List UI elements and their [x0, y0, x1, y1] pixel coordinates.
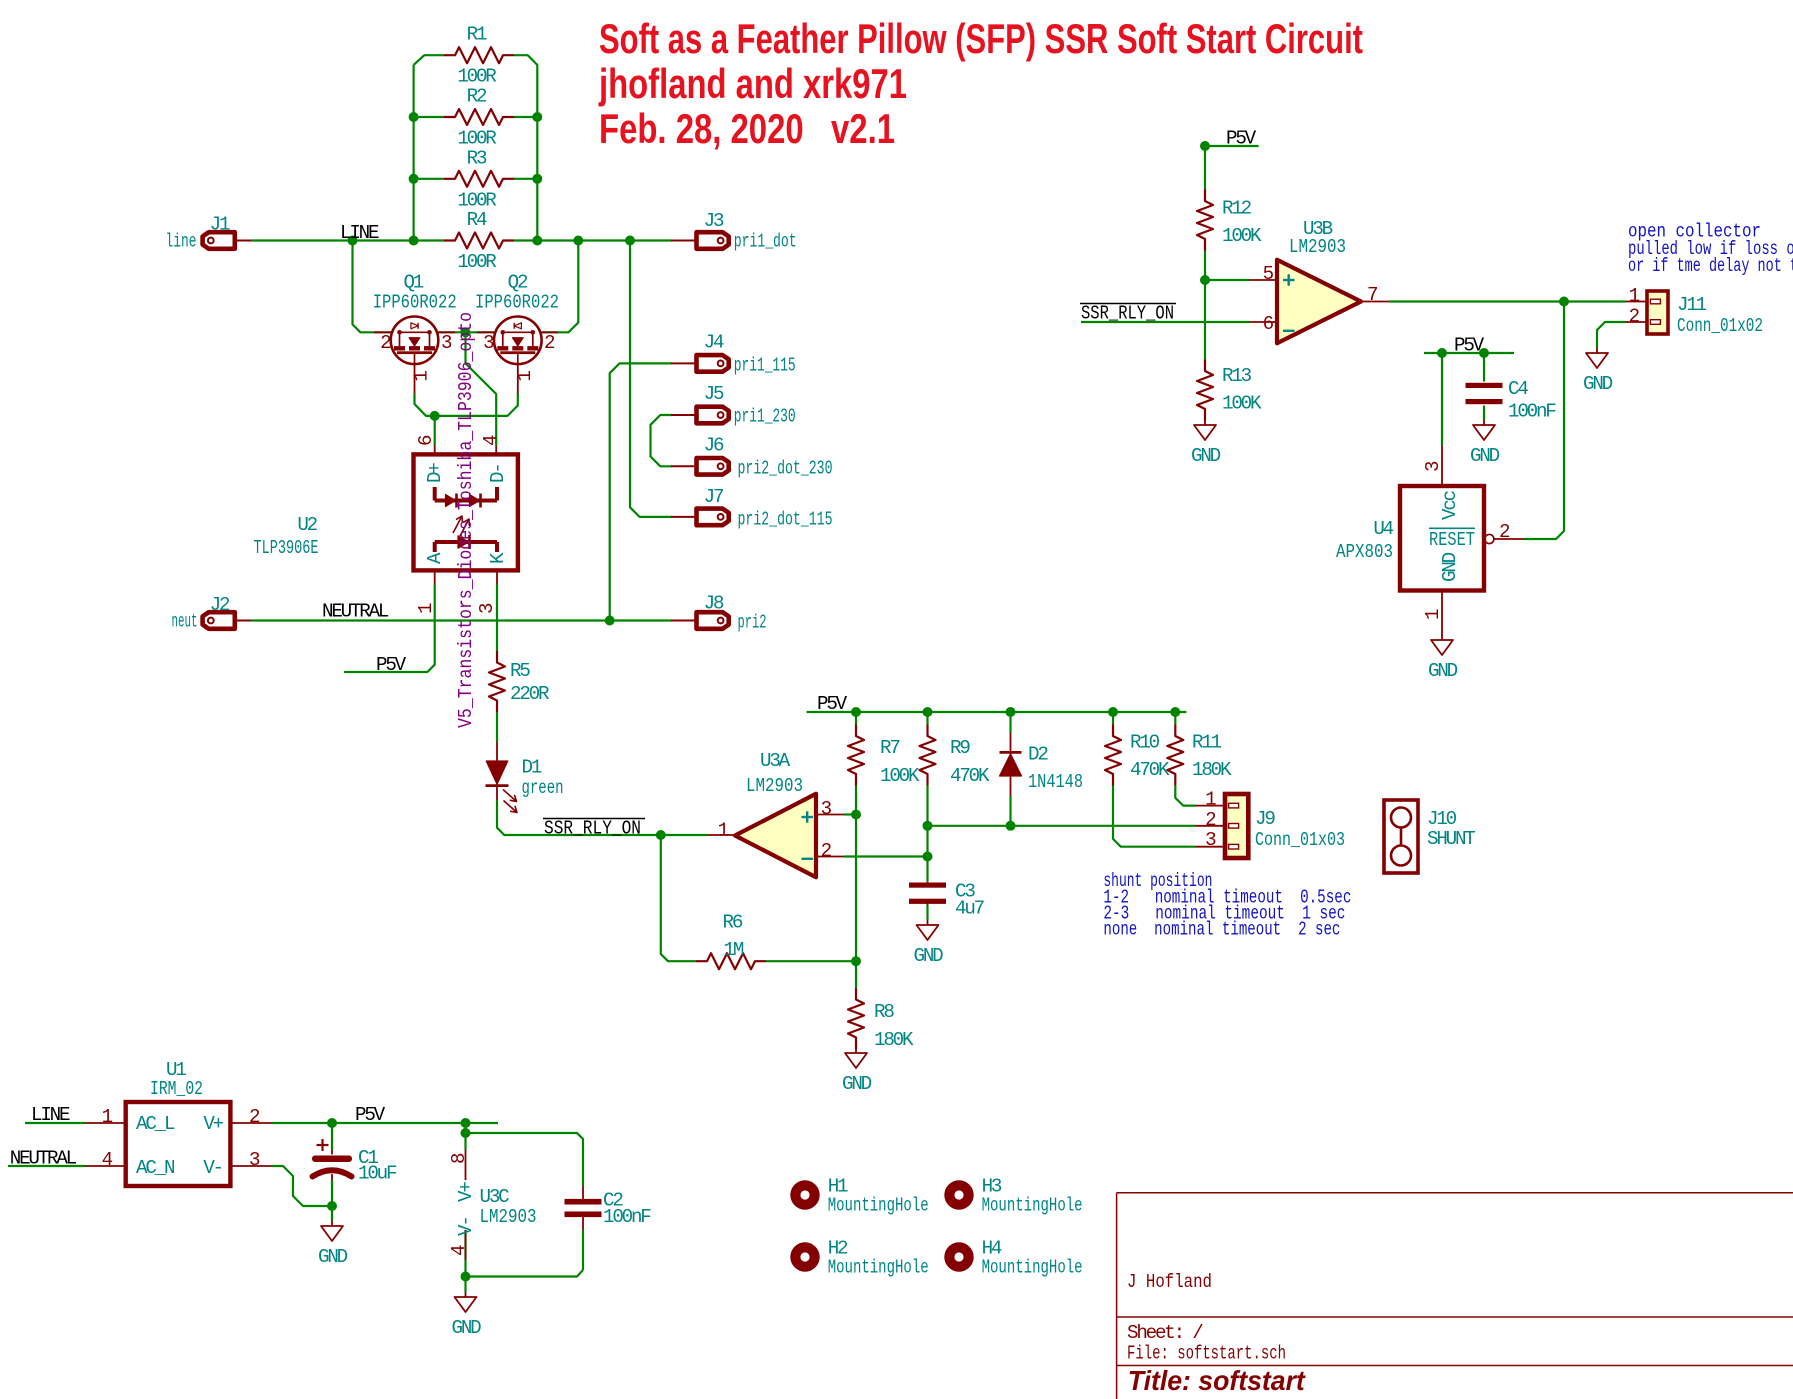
svg-text:100K: 100K	[880, 765, 920, 787]
svg-text:R7: R7	[880, 737, 900, 759]
svg-text:Feb. 28, 2020 v2.1: Feb. 28, 2020 v2.1	[599, 105, 895, 152]
svg-text:100nF: 100nF	[603, 1206, 651, 1228]
svg-text:GND: GND	[914, 945, 944, 967]
svg-text:P5V: P5V	[355, 1104, 386, 1126]
svg-text:or if tme delay not t: or if tme delay not t	[1628, 255, 1793, 277]
svg-text:R3: R3	[467, 147, 487, 169]
svg-text:R11: R11	[1192, 732, 1222, 754]
svg-text:APX803: APX803	[1336, 541, 1393, 563]
svg-text:GND: GND	[1191, 445, 1221, 467]
svg-text:J9: J9	[1255, 808, 1275, 830]
svg-text:D+: D+	[424, 463, 446, 483]
svg-text:J11: J11	[1677, 294, 1707, 316]
svg-text:MountingHole: MountingHole	[828, 1257, 929, 1279]
svg-text:100K: 100K	[1222, 225, 1262, 247]
svg-text:Soft as a Feather Pillow (SFP): Soft as a Feather Pillow (SFP) SSR Soft …	[599, 15, 1363, 62]
svg-text:J7: J7	[704, 486, 724, 508]
svg-text:V5_Transistors_Diodes_Toshiba_: V5_Transistors_Diodes_Toshiba_TLP3906_op…	[455, 312, 477, 728]
svg-text:D2: D2	[1028, 744, 1048, 766]
svg-text:10uF: 10uF	[358, 1163, 397, 1185]
svg-text:pri1_230: pri1_230	[734, 406, 796, 428]
svg-text:J6: J6	[704, 435, 724, 457]
svg-text:180K: 180K	[874, 1029, 914, 1051]
svg-text:LM2903: LM2903	[746, 775, 803, 797]
svg-text:RESET: RESET	[1429, 529, 1475, 551]
svg-text:R9: R9	[950, 737, 970, 759]
svg-text:R8: R8	[874, 1001, 894, 1023]
svg-text:U2: U2	[297, 514, 317, 536]
svg-text:File: softstart.sch: File: softstart.sch	[1127, 1343, 1286, 1365]
svg-text:R10: R10	[1130, 732, 1160, 754]
svg-text:100nF: 100nF	[1508, 401, 1556, 423]
svg-text:Title: softstart: Title: softstart	[1128, 1365, 1307, 1396]
svg-text:GND: GND	[1470, 445, 1500, 467]
svg-text:4u7: 4u7	[955, 898, 985, 920]
svg-text:470K: 470K	[1130, 759, 1170, 781]
svg-text:Vcc: Vcc	[1439, 490, 1461, 520]
svg-text:Q2: Q2	[508, 272, 528, 294]
svg-text:SSR_RLY_ON: SSR_RLY_ON	[1081, 303, 1174, 325]
svg-text:NEUTRAL: NEUTRAL	[322, 601, 389, 623]
svg-text:AC_L: AC_L	[136, 1113, 175, 1135]
svg-text:U3C: U3C	[480, 1186, 510, 1208]
svg-text:220R: 220R	[510, 683, 550, 705]
svg-text:LINE: LINE	[340, 222, 379, 244]
svg-text:P5V: P5V	[1454, 335, 1485, 357]
svg-text:SSR_RLY_ON: SSR_RLY_ON	[544, 818, 641, 840]
svg-text:100K: 100K	[1222, 393, 1262, 415]
svg-text:GND: GND	[842, 1073, 872, 1095]
svg-text:GND: GND	[318, 1246, 348, 1268]
svg-text:green: green	[522, 777, 564, 799]
svg-text:pri2: pri2	[738, 612, 767, 634]
svg-text:GND: GND	[452, 1317, 482, 1339]
svg-text:NEUTRAL: NEUTRAL	[10, 1148, 77, 1170]
svg-text:MountingHole: MountingHole	[828, 1195, 929, 1217]
svg-text:GND: GND	[1439, 552, 1461, 582]
svg-text:IRM_02: IRM_02	[150, 1078, 203, 1100]
svg-text:P5V: P5V	[1226, 128, 1257, 150]
svg-text:Conn_01x02: Conn_01x02	[1677, 315, 1763, 337]
svg-text:R6: R6	[723, 912, 743, 934]
svg-text:pri2_dot_230: pri2_dot_230	[738, 458, 833, 480]
svg-text:R1: R1	[467, 24, 487, 46]
svg-text:R2: R2	[467, 86, 487, 108]
svg-text:Sheet: /: Sheet: /	[1127, 1322, 1203, 1344]
svg-text:TLP3906E: TLP3906E	[254, 537, 319, 559]
svg-text:100R: 100R	[457, 251, 497, 273]
svg-text:U3A: U3A	[760, 750, 791, 772]
svg-text:Q1: Q1	[403, 272, 423, 294]
svg-text:P5V: P5V	[817, 693, 848, 715]
svg-text:V-: V-	[455, 1217, 477, 1236]
svg-text:100R: 100R	[457, 189, 497, 211]
svg-text:pri2_dot_115: pri2_dot_115	[738, 509, 833, 531]
svg-text:AC_N: AC_N	[136, 1157, 174, 1179]
svg-text:line: line	[166, 231, 197, 253]
svg-text:P5V: P5V	[376, 654, 407, 676]
svg-text:R5: R5	[510, 660, 530, 682]
svg-text:D1: D1	[522, 757, 542, 779]
svg-text:V+: V+	[455, 1182, 477, 1202]
svg-text:D-: D-	[487, 464, 509, 483]
svg-text:MountingHole: MountingHole	[982, 1195, 1083, 1217]
svg-text:GND: GND	[1583, 373, 1613, 395]
svg-text:pri1_dot: pri1_dot	[734, 231, 797, 253]
svg-text:V-: V-	[203, 1157, 222, 1179]
svg-text:1N4148: 1N4148	[1028, 771, 1083, 793]
svg-text:R12: R12	[1222, 198, 1252, 220]
svg-text:none nominal timeout 2 sec: none nominal timeout 2 sec	[1103, 919, 1340, 941]
svg-text:J Hofland: J Hofland	[1127, 1271, 1212, 1293]
svg-text:J8: J8	[704, 593, 724, 615]
svg-text:C4: C4	[1508, 378, 1528, 400]
svg-text:J4: J4	[704, 332, 724, 354]
svg-text:J3: J3	[704, 210, 724, 232]
svg-text:LM2903: LM2903	[480, 1206, 537, 1228]
svg-text:V+: V+	[203, 1113, 223, 1135]
svg-text:IPP60R022: IPP60R022	[475, 292, 559, 314]
svg-text:IPP60R022: IPP60R022	[373, 292, 457, 314]
svg-text:neut: neut	[172, 611, 198, 633]
svg-text:R13: R13	[1222, 365, 1252, 387]
svg-text:180K: 180K	[1192, 759, 1232, 781]
svg-text:470K: 470K	[950, 765, 990, 787]
svg-text:U4: U4	[1373, 518, 1393, 540]
svg-text:100R: 100R	[457, 66, 497, 88]
svg-text:J5: J5	[704, 383, 724, 405]
svg-text:1M: 1M	[724, 939, 744, 961]
svg-text:MountingHole: MountingHole	[982, 1257, 1083, 1279]
svg-text:R4: R4	[467, 209, 487, 231]
svg-text:LINE: LINE	[31, 1104, 70, 1126]
svg-text:SHUNT: SHUNT	[1427, 828, 1475, 850]
svg-text:pri1_115: pri1_115	[734, 355, 796, 377]
svg-text:J1: J1	[210, 213, 230, 235]
svg-text:J10: J10	[1427, 808, 1457, 830]
svg-text:J2: J2	[210, 594, 230, 616]
svg-text:GND: GND	[1428, 660, 1458, 682]
svg-text:100R: 100R	[457, 128, 497, 150]
svg-text:jhofland and xrk971: jhofland and xrk971	[598, 60, 907, 107]
svg-text:LM2903: LM2903	[1289, 236, 1346, 258]
svg-text:Conn_01x03: Conn_01x03	[1255, 829, 1345, 851]
